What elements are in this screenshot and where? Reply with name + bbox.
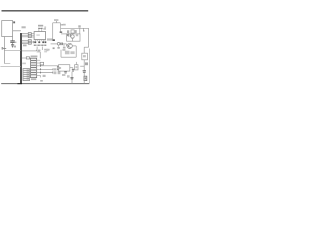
wire bus to TR1: [22, 57, 27, 59]
small box right of TR1: [40, 62, 43, 65]
wire D to diode: [61, 33, 67, 35]
U1 pin pads: [34, 41, 36, 43]
small glyph above y50 wire: [14, 46, 16, 48]
module box M1: [2, 21, 13, 37]
D right pins: [60, 24, 62, 26]
mark at end of D left edge: [53, 39, 55, 41]
top power rail: [2, 10, 89, 12]
diode D2: [67, 33, 69, 36]
wire IC to K: [51, 43, 58, 45]
U1 bottom pins: [34, 40, 36, 42]
relay block TR1: [31, 58, 37, 77]
wire M1 bottom down: [3, 36, 5, 63]
U1 bottom label row: [34, 45, 47, 47]
TR1 label above: [31, 56, 38, 58]
long wire y66.3: [0, 65, 21, 67]
below H: [83, 60, 85, 71]
box G right corner riser: [79, 28, 81, 34]
plate mark: [60, 32, 63, 33]
small box B2: [75, 65, 78, 70]
transistor Q1: [67, 43, 72, 48]
label right of C1: [15, 42, 17, 43]
IC U1: [34, 32, 46, 40]
label near bus top: [22, 26, 26, 28]
label under pins: [23, 45, 27, 47]
crystal X1 above U1: [39, 27, 43, 29]
wire D pin to right rail: [61, 27, 89, 29]
terminal block A: [28, 33, 31, 38]
connector pins group A: [22, 33, 29, 35]
box D top right: [53, 22, 61, 24]
glyph above right wire: [78, 25, 80, 27]
wire to bus at y50: [4, 49, 21, 51]
hatch tick: [70, 34, 71, 37]
label: [63, 24, 66, 26]
right vertical rail: [88, 28, 90, 47]
pin glyph on M1: [13, 21, 15, 23]
wire lower IC row: [22, 50, 37, 52]
label above long wire: [44, 49, 49, 51]
wire M1 to bus: [13, 30, 21, 32]
cap C7: [83, 70, 86, 72]
faint text below R1: [22, 63, 26, 65]
glyphs above G: [67, 30, 69, 33]
wire row 3: [37, 72, 53, 74]
cap cluster below-left of op-amp: [65, 70, 67, 73]
ladder block L2: [23, 69, 30, 81]
wire row 1 to op-amp: [37, 65, 59, 67]
U1 left pin stubs: [31, 32, 34, 34]
bottom ground rail: [1, 83, 89, 85]
TR1 label below: [31, 78, 36, 80]
wire from block B right: [31, 41, 35, 43]
small stubs below labels: [36, 47, 38, 50]
loop wires: [72, 45, 76, 47]
TR1 right pins: [37, 60, 41, 75]
resistor R1: [26, 57, 29, 59]
faint right border segment: [88, 49, 90, 84]
wire K to Q1: [63, 43, 67, 45]
terminal block B: [28, 40, 31, 45]
capacitor C1: [12, 37, 14, 41]
dark joint at bus: [17, 83, 22, 85]
ground G1: [11, 44, 14, 46]
op-amp output wire: [70, 67, 73, 69]
series cap: [60, 43, 62, 46]
label above rail: [40, 80, 43, 82]
junction tick: [3, 48, 6, 50]
U1 label above: [38, 25, 43, 27]
main bus bar: [20, 33, 22, 84]
op-amp triangle: [57, 66, 60, 70]
connector pins group B: [22, 40, 29, 42]
cap C6 to ground rail: [71, 72, 73, 78]
op-amp box: [59, 65, 70, 71]
loop labels: [65, 51, 70, 55]
stub wire y63.5: [4, 63, 10, 65]
wire row 2: [37, 68, 53, 70]
crystal symbol inside G: [71, 35, 74, 38]
small marks below K: [62, 49, 65, 51]
stub below pin 6: [39, 75, 41, 77]
box G: [67, 34, 80, 41]
box H: [82, 53, 88, 60]
circle K: [57, 43, 60, 46]
misc small text marks: [46, 49, 48, 51]
component bottom right: [84, 76, 87, 80]
